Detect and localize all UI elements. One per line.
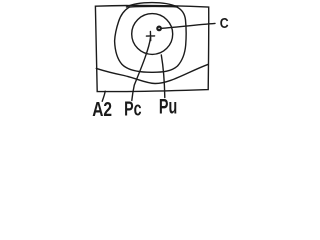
leader line to label A2 bbox=[102, 91, 105, 101]
wavefront W1 (inner circle) bbox=[132, 14, 173, 55]
svg-text:A2: A2 bbox=[92, 97, 112, 120]
leader line to label Pc bbox=[132, 38, 151, 101]
svg-text:Pc: Pc bbox=[124, 97, 142, 120]
leader line to label C bbox=[162, 23, 215, 28]
leader line to label Pu bbox=[161, 55, 165, 98]
svg-text:C: C bbox=[220, 15, 229, 31]
dot marker C (small ring) bbox=[157, 27, 161, 31]
svg-text:Pu: Pu bbox=[159, 93, 177, 118]
wavefront W3 top arc (pokes above rectangle top edge) bbox=[127, 3, 178, 7]
cross marker Pc (+) bbox=[146, 31, 154, 40]
wavefront W3 bottom arc (spans rectangle, meets side edges) bbox=[96, 64, 208, 83]
wavefront W2 (middle oval, top merges with rectangle top edge) bbox=[115, 6, 187, 72]
enclosure rectangle A2 bbox=[95, 6, 208, 92]
